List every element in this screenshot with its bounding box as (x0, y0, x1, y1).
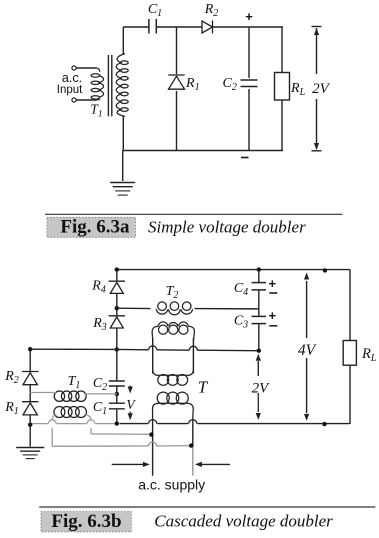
svg-text:R1: R1 (4, 400, 19, 417)
svg-text:C2: C2 (93, 376, 107, 393)
svg-text:T1: T1 (68, 374, 81, 391)
svg-text:2V: 2V (312, 81, 331, 97)
svg-text:T1: T1 (90, 102, 102, 120)
svg-text:RL: RL (290, 81, 306, 98)
svg-text:C3: C3 (234, 314, 248, 331)
svg-text:R2: R2 (4, 369, 19, 386)
svg-text:+: + (245, 9, 253, 24)
svg-text:C2: C2 (223, 76, 237, 93)
svg-text:+: + (269, 308, 277, 323)
svg-text:a.c. supply: a.c. supply (138, 477, 205, 493)
svg-text:R3: R3 (92, 316, 107, 333)
svg-text:2V: 2V (252, 380, 271, 396)
svg-text:C1: C1 (148, 2, 162, 19)
svg-text:Cascaded voltage doubler: Cascaded voltage doubler (154, 512, 333, 531)
svg-text:R4: R4 (91, 279, 106, 296)
svg-text:V: V (126, 397, 136, 412)
svg-text:C4: C4 (234, 281, 248, 298)
svg-text:RL: RL (361, 346, 377, 364)
svg-text:R2: R2 (204, 2, 219, 19)
svg-text:Input: Input (57, 84, 83, 96)
svg-text:Fig. 6.3b: Fig. 6.3b (51, 511, 121, 532)
svg-text:T2: T2 (166, 284, 179, 301)
svg-text:+: + (269, 276, 277, 291)
svg-text:Fig. 6.3a: Fig. 6.3a (60, 217, 130, 238)
svg-text:Simple voltage doubler: Simple voltage doubler (148, 217, 306, 236)
svg-text:a.c.: a.c. (62, 71, 82, 85)
svg-text:R1: R1 (185, 76, 200, 93)
svg-text:4V: 4V (298, 342, 317, 359)
svg-text:C1: C1 (93, 400, 107, 417)
svg-text:T: T (198, 378, 209, 397)
